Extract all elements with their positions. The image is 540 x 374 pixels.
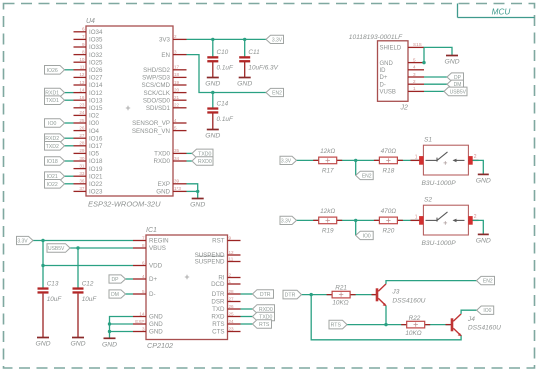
svg-text:GND: GND [190, 202, 205, 209]
svg-text:EN2: EN2 [272, 91, 282, 97]
svg-text:5: 5 [142, 289, 145, 294]
svg-text:RST: RST [212, 238, 225, 245]
node TXD0 label right of IC1 [253, 312, 275, 321]
wire D- [424, 83, 447, 85]
svg-text:4: 4 [174, 118, 177, 123]
svg-text:20: 20 [174, 87, 180, 92]
svg-text:J4: J4 [467, 316, 475, 323]
pin 26 IO4 of U4 [74, 125, 100, 134]
pin 12 IO27 of U4 [74, 72, 103, 81]
pin 8 VBUS of IC1 [133, 243, 166, 252]
svg-text:J2: J2 [400, 105, 409, 112]
svg-text:IO23: IO23 [89, 189, 103, 196]
svg-text:12kΩ: 12kΩ [320, 148, 335, 155]
svg-text:14: 14 [139, 311, 145, 316]
svg-text:IO16: IO16 [89, 135, 103, 142]
svg-text:RXD0: RXD0 [198, 159, 212, 165]
svg-text:IO27: IO27 [89, 75, 103, 82]
pin 21 SDO/SD0 of U4 [143, 95, 187, 104]
pin 13 IO14 of U4 [74, 80, 103, 89]
transistor J4 DSS4160U [446, 314, 502, 336]
wire DM to D- [126, 293, 134, 295]
wire net RXD2 [65, 137, 74, 139]
pin S1S SHIELD of J2 [380, 42, 425, 51]
ground at S2 [476, 234, 491, 244]
svg-text:C10: C10 [217, 49, 229, 56]
svg-text:28: 28 [229, 289, 235, 294]
svg-text:C11: C11 [248, 49, 260, 56]
svg-text:DSR: DSR [211, 299, 225, 306]
svg-text:GND: GND [149, 321, 163, 328]
node RTS label right of IC1 [253, 320, 272, 329]
svg-text:DTR: DTR [260, 292, 271, 298]
svg-text:0.1uF: 0.1uF [217, 65, 234, 72]
svg-text:SCK/CLK: SCK/CLK [144, 90, 171, 97]
pin 1*3 GND of U4 [156, 186, 186, 195]
svg-text:R20: R20 [383, 227, 395, 234]
wire net IO21 [65, 175, 74, 177]
svg-text:12kΩ: 12kΩ [320, 208, 335, 215]
wire net IO26 [65, 69, 74, 71]
pin 7 IO35 of U4 [74, 34, 103, 43]
node IO26 label [45, 66, 65, 75]
svg-text:GND: GND [444, 59, 459, 66]
svg-text:470Ω: 470Ω [381, 208, 397, 215]
wire VUSB [424, 90, 444, 92]
svg-text:25: 25 [229, 311, 235, 316]
svg-text:10uF: 10uF [47, 296, 63, 303]
svg-text:35: 35 [174, 148, 180, 153]
svg-text:2: 2 [229, 272, 232, 277]
ground at J2 shield [444, 56, 459, 66]
svg-text:B3U-1000P: B3U-1000P [422, 180, 457, 187]
svg-text:RTS: RTS [259, 322, 270, 328]
svg-text:DCD: DCD [211, 281, 225, 288]
pin 20 SCK/CLK of U4 [144, 87, 187, 96]
wire TXD0 [187, 152, 193, 154]
svg-text:IO2: IO2 [89, 113, 100, 120]
pin 4 D+ of IC1 [133, 274, 157, 283]
node DP label [447, 73, 464, 81]
pin 6 VDD of IC1 [133, 260, 163, 269]
pin 9 RST of IC1 [212, 235, 240, 244]
svg-text:6: 6 [142, 260, 145, 265]
svg-text:TXD1: TXD1 [46, 98, 59, 104]
svg-text:24: 24 [229, 319, 235, 324]
svg-text:33: 33 [79, 171, 85, 176]
svg-text:12: 12 [79, 72, 85, 77]
capacitor C11 [239, 49, 278, 71]
svg-text:VBUS: VBUS [149, 245, 166, 252]
svg-text:B3U-1000P: B3U-1000P [422, 240, 457, 247]
svg-text:12: 12 [229, 250, 235, 255]
svg-text:3.3V: 3.3V [17, 239, 28, 245]
svg-text:IO18: IO18 [47, 159, 58, 165]
pin 27 IO16 of U4 [74, 133, 103, 142]
svg-text:GND: GND [149, 314, 163, 321]
pin 4 SENSOR_VP of U4 [132, 118, 186, 127]
switch S2 B3U-1000P [411, 197, 479, 247]
svg-text:3.3V: 3.3V [281, 218, 292, 224]
node DTR label [283, 290, 302, 299]
pin 9 IO33 of U4 [74, 42, 103, 51]
svg-text:CTS: CTS [212, 329, 224, 336]
pin 30 IO18 of U4 [74, 156, 103, 165]
svg-text:R21: R21 [335, 285, 347, 292]
svg-text:MCU: MCU [492, 7, 511, 16]
wire VDD branch [43, 265, 133, 267]
wire J3 emitter to RTS net [384, 306, 387, 327]
pin 39 EXP of U4 [158, 179, 187, 188]
node 3.3V label S2 row [280, 216, 297, 224]
ground under C14 [205, 130, 220, 140]
svg-text:31: 31 [79, 163, 85, 168]
wire C11 stem [244, 39, 246, 77]
wire IC1 GND pins to ground [108, 317, 133, 338]
wire RTS from IC1 [241, 323, 253, 325]
pin 7 REGIN of IC1 [133, 235, 169, 244]
wire RTS net [347, 324, 450, 326]
node DP label at IC1 [109, 275, 126, 283]
svg-text:16: 16 [79, 95, 85, 100]
pin 18 SWP/SD3 of U4 [142, 72, 186, 81]
node RXD1 label [45, 88, 65, 97]
wire net TXD1 [65, 99, 74, 101]
svg-text:10KΩ: 10KΩ [332, 300, 348, 307]
ground under C10 [205, 78, 220, 88]
svg-text:IO5: IO5 [89, 151, 100, 158]
svg-text:8: 8 [142, 243, 145, 248]
svg-text:IO32: IO32 [89, 52, 103, 59]
svg-text:IO26: IO26 [47, 68, 58, 74]
svg-text:IO22: IO22 [89, 181, 103, 188]
wire net RXD1 [65, 92, 74, 94]
wire C13 branch [41, 241, 44, 289]
pin 26 TXD of IC1 [212, 304, 240, 313]
wire net IO18 [65, 160, 74, 162]
svg-text:27: 27 [79, 133, 85, 138]
node RTS label [329, 320, 347, 329]
svg-text:29: 29 [79, 148, 85, 153]
wire DP to D+ [126, 278, 134, 280]
switch S1 B3U-1000P [411, 137, 479, 187]
svg-text:DP: DP [112, 277, 120, 283]
pin 3 GND of IC1 [133, 326, 163, 335]
pin 14 GND of IC1 [133, 311, 163, 320]
svg-text:ID: ID [380, 68, 387, 74]
svg-text:11: 11 [80, 65, 85, 70]
svg-text:3: 3 [174, 49, 177, 54]
svg-text:DTR: DTR [285, 293, 296, 299]
svg-text:25: 25 [79, 118, 85, 123]
svg-text:39: 39 [174, 179, 180, 184]
svg-text:EXP: EXP [158, 181, 170, 188]
wire DTR to J4 emitter [311, 295, 461, 340]
svg-text:RXD: RXD [211, 314, 225, 321]
svg-text:9: 9 [82, 42, 85, 47]
svg-text:EN: EN [161, 52, 170, 59]
svg-text:19: 19 [174, 80, 180, 85]
svg-text:GND: GND [102, 342, 117, 349]
pin 5 GND of J2 [380, 57, 425, 66]
wire SHIELD to GND [422, 47, 452, 64]
svg-text:GND: GND [70, 341, 85, 348]
node EN2 label near C14 [266, 88, 284, 96]
pin 23 CTS of IC1 [212, 326, 240, 335]
pin 10 IO25 of U4 [74, 57, 103, 66]
pin 22 SDI/SD1 of U4 [146, 103, 187, 112]
svg-text:SDO/SD0: SDO/SD0 [143, 97, 171, 104]
svg-text:17: 17 [174, 65, 180, 70]
svg-text:RXD0: RXD0 [153, 158, 170, 165]
node DM label at IC1 [109, 290, 126, 298]
svg-text:26: 26 [79, 125, 85, 130]
ground at IC1 [102, 338, 117, 348]
svg-text:TXD: TXD [212, 306, 225, 313]
pin 1 VUSB of J2 [380, 86, 425, 95]
svg-text:10: 10 [79, 57, 85, 62]
svg-text:IO19: IO19 [89, 166, 103, 173]
node TXD1 label [45, 96, 65, 105]
pin 37 IO23 of U4 [74, 186, 103, 195]
wire net IO22 [65, 183, 74, 185]
pin 17 SHD/SD2 of U4 [143, 65, 186, 74]
svg-text:IO34: IO34 [89, 29, 103, 36]
svg-text:SHIELD: SHIELD [380, 46, 402, 52]
wire TXD0 from IC1 [241, 316, 253, 318]
node 3.3V label at REGIN [17, 236, 34, 244]
node TXD0 label [192, 149, 213, 158]
ground under C13 [35, 338, 50, 348]
svg-text:DSS4160U: DSS4160U [392, 298, 425, 305]
pin 3 D+ of J2 [380, 72, 425, 81]
svg-text:23: 23 [79, 103, 85, 108]
svg-text:SCS/CMD: SCS/CMD [141, 82, 170, 89]
svg-text:IO26: IO26 [89, 67, 103, 74]
svg-text:2: 2 [413, 79, 416, 84]
title box MCU [458, 4, 535, 18]
node IO18 label [45, 157, 65, 166]
svg-text:3: 3 [413, 72, 416, 77]
svg-text:RTS: RTS [212, 321, 224, 328]
svg-text:ESP32-WROOM-32U: ESP32-WROOM-32U [88, 200, 161, 209]
wire S2 to ground [473, 220, 484, 234]
svg-text:3: 3 [142, 326, 145, 331]
pin 19 SCS/CMD of U4 [141, 80, 186, 89]
svg-text:IO0: IO0 [363, 233, 371, 239]
wire D+ [424, 76, 447, 78]
wire 3.3V to S1 [297, 159, 420, 162]
node 3.3V label S1 row [280, 156, 297, 164]
svg-text:IO13: IO13 [89, 97, 103, 104]
svg-text:11: 11 [229, 256, 234, 261]
svg-text:9: 9 [229, 235, 232, 240]
svg-text:18: 18 [174, 72, 180, 77]
node DM label [447, 80, 464, 88]
svg-text:S1S: S1S [413, 42, 422, 47]
svg-text:D-: D- [380, 82, 386, 88]
svg-text:GND: GND [476, 178, 491, 185]
svg-text:6: 6 [82, 27, 85, 32]
pin 34 RXD0 of U4 [153, 156, 186, 165]
wire RXD0 from IC1 [241, 308, 253, 310]
svg-text:7: 7 [82, 34, 85, 39]
node RXD2 label [45, 134, 65, 143]
wire C12 branch [77, 248, 79, 288]
svg-text:0.1uF: 0.1uF [217, 116, 234, 123]
svg-text:5: 5 [174, 125, 177, 130]
svg-text:D+: D+ [149, 276, 157, 283]
svg-text:1: 1 [415, 154, 418, 160]
wire EN net [187, 55, 267, 95]
node RXD0 label right of IC1 [253, 305, 275, 314]
pin 3 EN of U4 [161, 49, 186, 58]
wire DTR from IC1 [241, 293, 253, 295]
svg-text:J3: J3 [391, 288, 399, 295]
svg-text:R18: R18 [383, 167, 395, 174]
pin 27 DSR of IC1 [211, 296, 240, 305]
svg-text:DM: DM [111, 292, 119, 298]
svg-text:10uF/6.3V: 10uF/6.3V [248, 65, 278, 72]
svg-text:IO0: IO0 [483, 308, 491, 314]
ground under C11 [237, 78, 252, 88]
svg-text:GND: GND [35, 341, 50, 348]
svg-text:IC1: IC1 [146, 227, 157, 234]
svg-text:4: 4 [142, 274, 145, 279]
svg-text:3V3: 3V3 [159, 37, 171, 44]
svg-text:GND: GND [476, 238, 491, 245]
svg-text:23: 23 [229, 326, 235, 331]
svg-text:GND: GND [149, 329, 163, 336]
svg-text:EN2: EN2 [483, 279, 493, 285]
pin 2 D- of J2 [380, 79, 425, 88]
pin 24 RTS of IC1 [212, 319, 240, 328]
pin 6 IO34 of U4 [74, 27, 103, 36]
svg-text:DSS4160U: DSS4160U [468, 324, 501, 331]
svg-text:GND: GND [156, 189, 170, 196]
wire DTR net [302, 293, 333, 296]
wire J3 collector to EN2 [386, 281, 477, 284]
svg-text:TXD0: TXD0 [154, 151, 170, 158]
svg-text:28: 28 [79, 141, 85, 146]
pin 25 RXD of IC1 [211, 311, 240, 320]
capacitor C14 [207, 100, 234, 122]
svg-text:R22: R22 [409, 315, 421, 322]
wire 3.3V to S2 [297, 219, 420, 222]
svg-text:IO22: IO22 [47, 182, 58, 188]
pin 8 IO32 of U4 [74, 49, 103, 58]
svg-text:470Ω: 470Ω [381, 148, 397, 155]
svg-text:S2: S2 [424, 197, 432, 204]
wire 3V3 net [187, 38, 267, 41]
svg-text:USB5V: USB5V [450, 89, 467, 95]
svg-text:IO18: IO18 [89, 158, 103, 165]
svg-text:34: 34 [174, 156, 180, 161]
svg-text:8: 8 [82, 49, 85, 54]
pin 2 RI of IC1 [218, 272, 240, 281]
pin 11 IO26 of U4 [74, 65, 103, 74]
svg-text:IO35: IO35 [89, 37, 103, 44]
svg-text:D-: D- [149, 291, 156, 298]
svg-text:S1: S1 [424, 137, 432, 144]
svg-text:IO21: IO21 [89, 173, 103, 180]
svg-text:13: 13 [79, 80, 85, 85]
pin 12 SUSPEND of IC1 [195, 250, 241, 259]
svg-text:GND: GND [205, 133, 220, 140]
pin 33 IO21 of U4 [74, 171, 103, 180]
svg-text:5: 5 [413, 57, 416, 62]
resistor R21 10K [327, 285, 377, 307]
svg-text:SDI/SD1: SDI/SD1 [146, 105, 171, 112]
wire USB5V to VBUS [70, 246, 133, 249]
pin 2 3V3 of U4 [159, 34, 187, 43]
capacitor C13 [38, 280, 63, 337]
node 3.3V label top [266, 35, 284, 43]
svg-text:24: 24 [79, 110, 85, 115]
pin 29 IO5 of U4 [74, 148, 100, 157]
svg-text:2: 2 [474, 154, 477, 160]
svg-text:IO0: IO0 [89, 120, 100, 127]
connector J2 10118193-0001LF body [349, 34, 408, 112]
wire C10 stem [212, 39, 214, 77]
pin 5 D- of IC1 [133, 289, 156, 298]
svg-text:27: 27 [229, 296, 235, 301]
node EN2 label below junction [356, 171, 374, 179]
wire RXD0 [187, 160, 193, 162]
svg-text:10118193-0001LF: 10118193-0001LF [349, 34, 403, 41]
pin 23 IO15 of U4 [74, 103, 103, 112]
svg-text:1: 1 [229, 279, 232, 284]
svg-text:EN2: EN2 [362, 173, 372, 179]
resistor R17 12k [313, 148, 342, 175]
wire J4 collector to IO0 [461, 310, 477, 314]
ground at U4 [190, 199, 205, 209]
svg-text:1*3: 1*3 [174, 186, 181, 191]
node IO21 label [45, 172, 65, 181]
pin 36 IO22 of U4 [74, 179, 103, 188]
svg-text:IO0: IO0 [48, 121, 56, 127]
wire net IO0 [65, 122, 74, 124]
resistor R19 12k [313, 208, 342, 235]
svg-text:SWP/SD3: SWP/SD3 [142, 75, 170, 82]
svg-text:4: 4 [413, 65, 416, 70]
svg-text:EXP: EXP [135, 319, 144, 324]
pin 35 TXD0 of U4 [154, 148, 186, 157]
svg-text:30: 30 [79, 156, 85, 161]
pin 11 SUSPEND of IC1 [195, 256, 241, 266]
capacitor C10 [207, 49, 234, 71]
svg-text:10KΩ: 10KΩ [405, 330, 421, 337]
svg-text:C12: C12 [82, 280, 94, 287]
svg-text:CP2102: CP2102 [147, 341, 173, 350]
svg-text:IO25: IO25 [89, 59, 103, 66]
svg-text:R19: R19 [322, 227, 334, 234]
svg-text:21: 21 [174, 95, 180, 100]
svg-text:3.3V: 3.3V [272, 37, 283, 43]
pin 25 IO0 of U4 [74, 118, 100, 127]
svg-text:R17: R17 [322, 167, 334, 174]
svg-text:26: 26 [229, 304, 235, 309]
svg-text:7: 7 [142, 235, 145, 240]
wire S1 to ground [473, 160, 484, 174]
svg-text:36: 36 [79, 179, 85, 184]
wire EXP to ground [187, 184, 200, 199]
IC IC1 CP2102 body [146, 227, 228, 350]
wire 3.3V to REGIN [33, 239, 133, 242]
svg-text:REGIN: REGIN [149, 238, 169, 245]
op-amp U1 ESP32 module U4 body [86, 18, 173, 209]
svg-text:VDD: VDD [149, 263, 163, 270]
